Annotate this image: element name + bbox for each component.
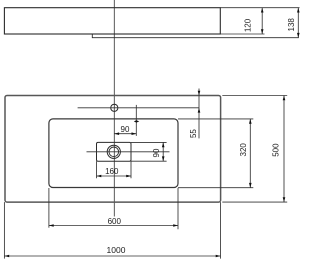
svg-text:90: 90 bbox=[152, 148, 161, 157]
extension plan top right bbox=[222, 95, 287, 97]
extension line top (side view) bbox=[220, 7, 299, 9]
svg-text:1000: 1000 bbox=[107, 245, 126, 255]
dimension 90 drain height bbox=[131, 142, 167, 161]
extension line body bottom (side view) bbox=[220, 33, 264, 35]
dimension 55 bbox=[189, 89, 200, 139]
side view body bbox=[4, 8, 220, 34]
svg-text:320: 320 bbox=[239, 143, 248, 157]
dimension 90 faucet offset bbox=[114, 105, 139, 136]
svg-text:55: 55 bbox=[189, 129, 198, 138]
svg-text:90: 90 bbox=[121, 125, 130, 134]
svg-text:600: 600 bbox=[108, 217, 122, 226]
extension bowl top right bbox=[178, 118, 253, 120]
extension bowl bottom right bbox=[178, 187, 253, 189]
dimension 500 bbox=[272, 96, 286, 203]
drain rect bbox=[97, 142, 132, 161]
svg-text:138: 138 bbox=[287, 18, 296, 32]
dimension 600 bbox=[49, 188, 178, 229]
centerline vertical (basin axis) bbox=[113, 0, 115, 217]
drain horizontal centerline bbox=[87, 151, 170, 153]
svg-text:160: 160 bbox=[105, 167, 119, 176]
side view bottom lip bbox=[92, 34, 298, 38]
faucet hole bbox=[111, 104, 118, 111]
drain outer circle bbox=[107, 145, 120, 158]
dimension 1000 bbox=[4, 202, 220, 259]
dimension 138 bbox=[287, 8, 300, 38]
dimension 120 bbox=[243, 8, 263, 34]
plan view outer rect bbox=[5, 96, 221, 203]
dimension 320 bbox=[239, 119, 252, 188]
extension plan bottom right bbox=[222, 201, 287, 203]
dimension 160 bbox=[97, 161, 132, 178]
svg-text:500: 500 bbox=[272, 143, 281, 157]
svg-text:120: 120 bbox=[243, 18, 252, 32]
drain inner circle bbox=[109, 147, 119, 157]
bowl rounded rect bbox=[49, 119, 178, 188]
faucet horizontal centerline bbox=[78, 107, 199, 109]
